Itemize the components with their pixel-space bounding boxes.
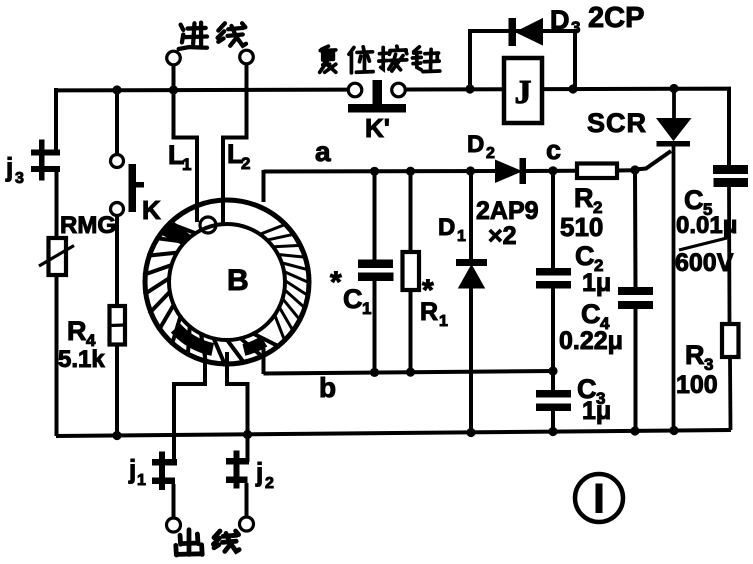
svg-text:1μ: 1μ (582, 269, 611, 297)
diode D1 (469, 171, 473, 260)
svg-text:RMG: RMG (60, 212, 116, 239)
wire top rail right (405, 89, 729, 166)
terminal incoming left (167, 51, 181, 65)
wire bottom bus (56, 430, 731, 436)
svg-text:1μ: 1μ (582, 397, 611, 425)
svg-text:R: R (420, 298, 438, 326)
svg-text:100: 100 (676, 371, 718, 399)
node SCR anode (669, 84, 678, 93)
terminal incoming right (240, 50, 254, 64)
svg-text:2CP: 2CP (588, 2, 644, 34)
relay coil J (504, 58, 542, 123)
node bus j2 (243, 430, 252, 439)
pushbutton K' actuator (373, 80, 383, 106)
svg-text:C: C (575, 241, 595, 271)
label 出线 outgoing line (176, 530, 202, 555)
svg-text:5.1k: 5.1k (58, 346, 105, 373)
capacitor C3 (551, 371, 555, 391)
svg-text:1: 1 (362, 299, 371, 318)
resistor R2 (577, 164, 617, 179)
svg-text:0.01μ: 0.01μ (676, 212, 737, 239)
node bus D1 (466, 428, 475, 437)
figure number I circled (575, 474, 623, 522)
svg-text:j: j (5, 152, 13, 182)
wire L2 from terminal (223, 64, 247, 224)
wire SCR gate (635, 151, 671, 170)
wire toroid bottom left exit to j1 (174, 350, 205, 463)
wire top rail left (56, 88, 348, 93)
node D3 loop left (465, 84, 474, 93)
winding dark wedge top-left (161, 221, 192, 245)
capacitor C5 (713, 165, 748, 174)
svg-text:510: 510 (560, 212, 603, 242)
winding dark band bottom-left (176, 328, 213, 349)
resistor R3 (722, 324, 739, 357)
svg-text:2: 2 (241, 154, 250, 173)
svg-text:1: 1 (137, 472, 146, 489)
wire D2 to c (526, 169, 577, 173)
svg-text:J: J (515, 74, 532, 111)
wire L1 from terminal (174, 65, 198, 222)
wire R3 to bus (728, 357, 732, 430)
wire R2 to gate node (617, 168, 635, 172)
svg-text:1: 1 (182, 155, 191, 174)
svg-text:D: D (550, 5, 570, 35)
node D3 loop right (568, 84, 577, 93)
label 复位按钮 reset button (320, 46, 336, 72)
svg-text:3: 3 (15, 170, 24, 187)
winding entry loop (200, 217, 216, 233)
svg-text:2: 2 (265, 475, 274, 492)
wire RMG to bus (55, 275, 59, 436)
fuse RMG (55, 172, 59, 238)
transformer B toroid core (145, 200, 309, 364)
wire R4 to bus (115, 345, 119, 437)
svg-text:C: C (343, 284, 363, 314)
svg-text:B: B (227, 264, 249, 297)
node C2 bottom (548, 366, 557, 375)
node C1 bottom (370, 368, 379, 377)
node bus SCR cathode (669, 426, 678, 435)
svg-text:c: c (546, 135, 561, 165)
wire right edge below C5 (727, 187, 731, 324)
node junction K branch top (112, 85, 121, 94)
svg-text:R: R (574, 183, 594, 213)
svg-text:j: j (128, 454, 136, 484)
node bus C4 (630, 426, 639, 435)
node gate / R2 right (630, 165, 639, 174)
node bus C3 (548, 427, 557, 436)
svg-text:a: a (315, 136, 331, 167)
contact j1 (152, 459, 177, 466)
wire left edge (j3 branch top) (54, 88, 58, 152)
contact j3 (31, 150, 60, 156)
capacitor C2 (551, 171, 555, 269)
node R1 top (406, 167, 415, 176)
node C1 top (370, 167, 379, 176)
svg-text:SCR: SCR (587, 108, 647, 138)
switch K (115, 90, 119, 154)
node D1 top (466, 166, 475, 175)
thyristor SCR (672, 90, 676, 120)
svg-text:×2: ×2 (488, 222, 517, 250)
node bus K branch (112, 431, 121, 440)
diode D3 (509, 18, 517, 46)
svg-text:j: j (255, 457, 263, 487)
diode D2 (496, 161, 520, 182)
node R1 bottom (406, 368, 415, 377)
wire D1 to bus (469, 287, 473, 433)
svg-text:b: b (319, 372, 336, 403)
node junction incoming L1 (169, 85, 178, 94)
svg-text:R: R (685, 340, 705, 370)
svg-text:*: * (330, 266, 342, 299)
svg-text:2AP9: 2AP9 (476, 197, 539, 225)
capacitor C4 (633, 170, 638, 288)
svg-text:K: K (142, 195, 161, 225)
wire node a vertical (262, 170, 266, 202)
label 进线 incoming line (179, 23, 207, 49)
svg-text:2: 2 (486, 145, 495, 162)
pushbutton K' left contact (348, 83, 362, 97)
wire toroid bottom right exit to j2 (227, 352, 248, 462)
svg-text:1: 1 (457, 228, 466, 245)
svg-text:3: 3 (571, 18, 580, 37)
wire a rail (264, 169, 498, 174)
svg-text:600V: 600V (675, 249, 734, 277)
winding hatches secondary (right) (259, 224, 311, 343)
svg-text:C: C (684, 185, 704, 215)
resistor R1 (409, 171, 413, 252)
wire b rail (264, 371, 554, 374)
resistor R4 (110, 306, 126, 345)
wire node b vertical (262, 348, 266, 374)
capacitor C1 (373, 171, 377, 260)
divider slash (679, 238, 727, 250)
terminal outgoing right (240, 517, 254, 531)
svg-text:D: D (438, 214, 455, 241)
winding hatches primary (left) (143, 223, 280, 366)
node c (548, 166, 557, 175)
svg-text:1: 1 (439, 313, 448, 330)
pushbutton K' right contact (392, 83, 406, 97)
contact j2 (226, 458, 249, 465)
svg-text:C: C (581, 299, 601, 329)
wire D3 bypass loop (470, 31, 575, 89)
terminal outgoing left (167, 518, 181, 532)
wire K to R4 (115, 216, 119, 306)
svg-text:R: R (67, 316, 87, 346)
winding dark band bottom-right (244, 341, 264, 350)
svg-text:K': K' (365, 113, 390, 143)
svg-text:0.22μ: 0.22μ (559, 327, 623, 355)
svg-text:D: D (467, 131, 484, 158)
